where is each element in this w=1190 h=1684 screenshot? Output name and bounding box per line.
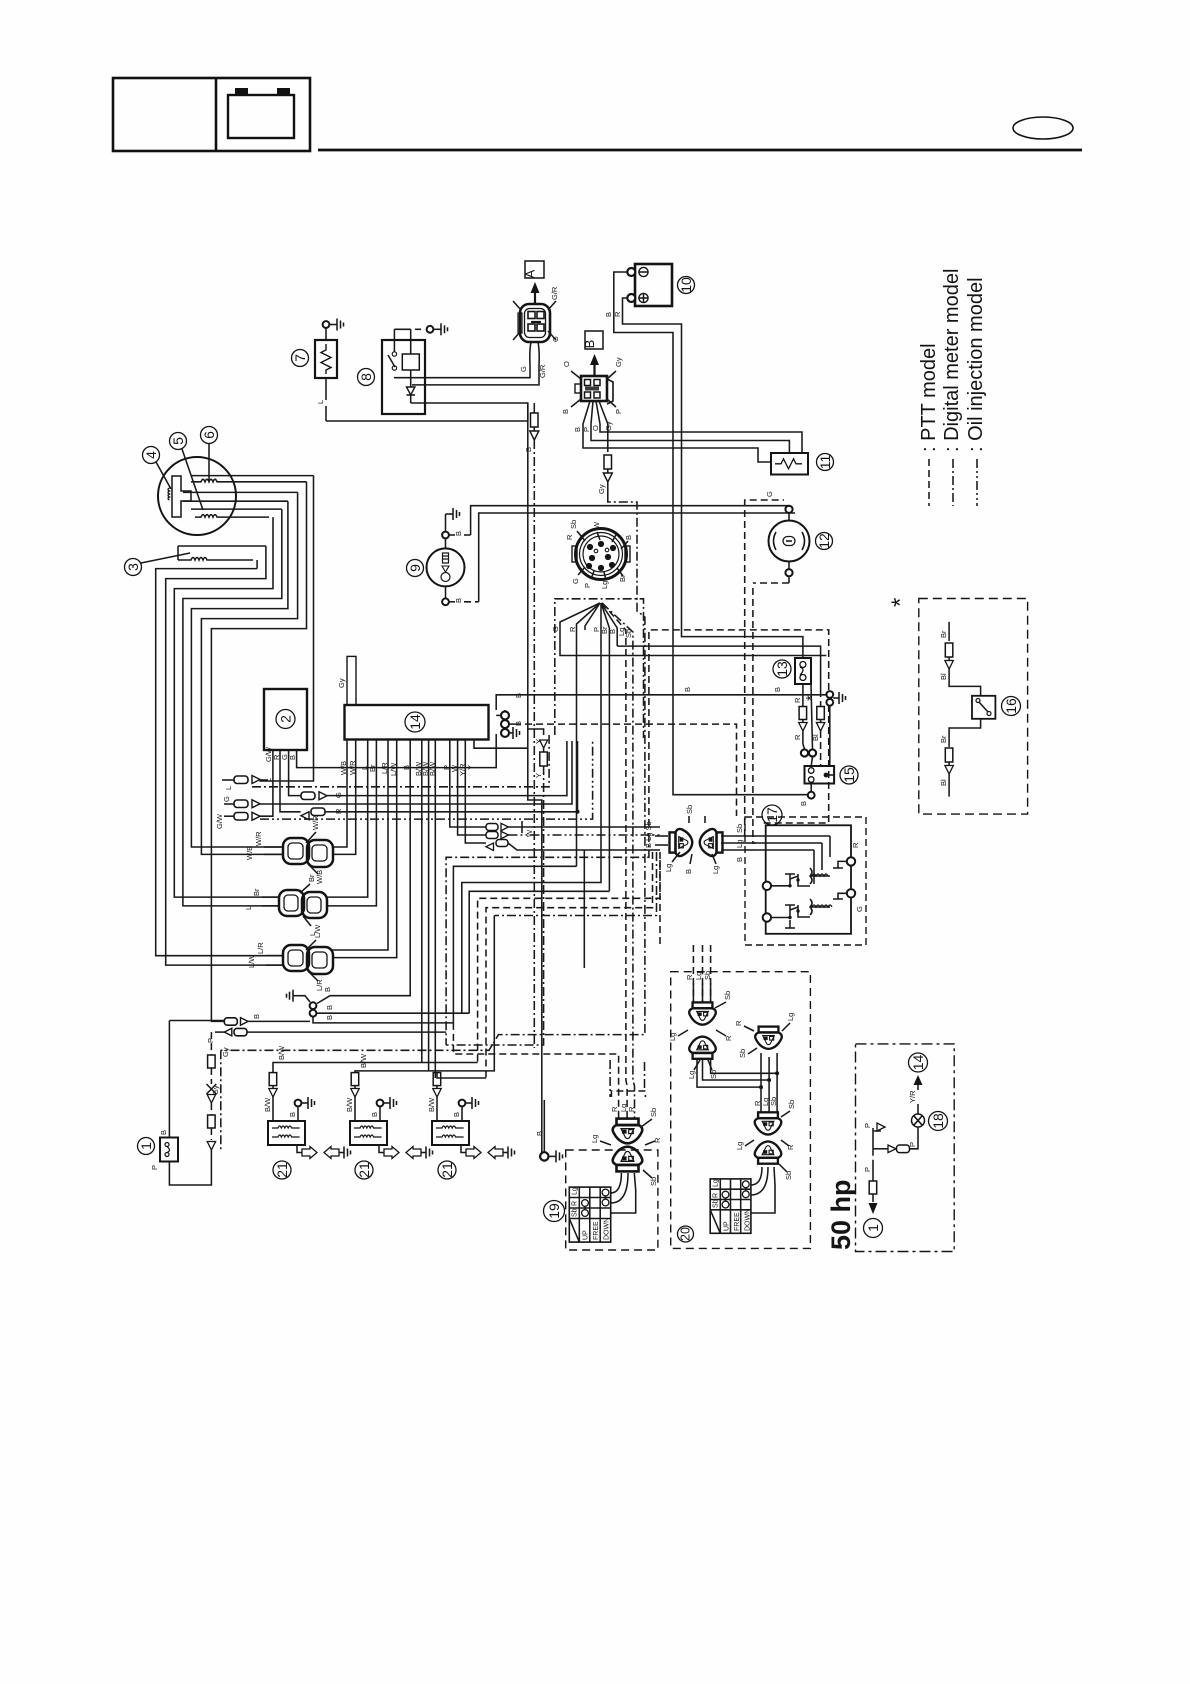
svg-text:G: G [551, 336, 560, 342]
svg-text:3: 3 [125, 563, 141, 571]
flywheel magneto circle [158, 457, 236, 535]
svg-text:R: R [627, 1106, 636, 1112]
svg-text:B Lg Sb: B Lg Sb [644, 821, 653, 848]
svg-text:L: L [244, 906, 253, 910]
label 21 a [273, 1161, 291, 1179]
svg-text:Gy: Gy [597, 484, 606, 494]
bullet connector L [222, 776, 273, 791]
battery R wire [613, 298, 682, 628]
bullet connector pair B bottom left [224, 1014, 310, 1025]
svg-text:Lg: Lg [786, 1013, 795, 1021]
svg-text:G: G [334, 792, 343, 798]
50hp wire chain to 1 [863, 1123, 918, 1214]
unit 14 wires B/W x3 [422, 740, 436, 1079]
resistor 7 [315, 319, 344, 379]
svg-text:Lg: Lg [711, 866, 720, 874]
svg-text:Lg: Lg [735, 1142, 744, 1150]
node B box [582, 331, 603, 349]
svg-text:Gy: Gy [337, 678, 346, 688]
charge coil 5 winding [183, 492, 298, 517]
svg-text:R: R [724, 1035, 733, 1041]
B fuse chain below node A area [524, 403, 539, 1048]
svg-text:B/W: B/W [277, 1045, 286, 1060]
harness fan-out below round connector [551, 603, 826, 1118]
svg-text:Sb: Sb [723, 991, 732, 1000]
svg-text:B: B [454, 531, 463, 536]
svg-text:P: P [150, 1165, 159, 1170]
svg-text:B: B [370, 1112, 379, 1117]
svg-text:B/W: B/W [359, 1053, 368, 1068]
label 17 [762, 805, 782, 825]
svg-text:B: B [683, 687, 692, 692]
svg-text:G: G [571, 578, 580, 584]
battery icon in header [228, 88, 294, 138]
svg-text:Sb: Sb [784, 1171, 793, 1180]
svg-text:Sb: Sb [685, 805, 694, 814]
svg-text:Sb: Sb [703, 971, 712, 980]
svg-text:P: P [614, 409, 623, 414]
connector B fan wires B P O Gy [573, 401, 802, 462]
svg-text:8: 8 [358, 373, 374, 381]
svg-text:G: G [855, 906, 864, 912]
svg-text:7: 7 [292, 354, 308, 362]
unit 14 wire Y [474, 740, 528, 749]
svg-text:1: 1 [138, 1142, 154, 1150]
svg-text:R: R [734, 1020, 743, 1026]
ignition coil 21 a [263, 1045, 478, 1159]
svg-text:Gy: Gy [604, 421, 613, 431]
svg-text:1: 1 [865, 1224, 881, 1232]
svg-text:G/R: G/R [538, 364, 547, 378]
svg-text:14: 14 [910, 1055, 926, 1071]
bullet connector G/W left [215, 812, 260, 829]
svg-text:Lg: Lg [694, 972, 703, 980]
harness elbow runs to lower verticals [355, 603, 660, 1078]
bullet connector pair P bottom left [206, 1028, 446, 1043]
battery B wire [604, 272, 808, 795]
plug pair 1 (W/R W/B) [245, 815, 333, 884]
svg-text:Lg: Lg [600, 581, 609, 589]
PTT motor connector pair upper [668, 971, 733, 1079]
svg-text:Br: Br [939, 630, 948, 638]
label 18 [929, 1112, 948, 1131]
rectifier regulator 8 [382, 323, 448, 414]
main harness round connector (10-pin) [565, 520, 633, 589]
junction rings right of unit 14 [496, 693, 826, 816]
legend: Oil injection model [965, 277, 987, 506]
svg-text:W/B: W/B [245, 846, 254, 860]
svg-text:L/R: L/R [256, 942, 265, 954]
node A box [523, 261, 545, 278]
label 10 [678, 277, 695, 294]
label 21 c [438, 1161, 456, 1179]
svg-text:B: B [323, 987, 332, 992]
svg-text:W/B: W/B [315, 870, 324, 884]
PTT model dashed drop lines to motor [660, 860, 711, 1002]
header ellipse mark [1013, 117, 1073, 139]
svg-text:Lg: Lg [572, 1187, 579, 1195]
svg-text:DOWN: DOWN [745, 1209, 752, 1231]
svg-text:13: 13 [774, 661, 790, 677]
svg-text:B: B [582, 340, 597, 349]
B junction rings and ground [683, 687, 846, 706]
svg-text:B/W: B/W [427, 1097, 436, 1112]
svg-text:B: B [561, 409, 570, 414]
svg-text:R: R [685, 974, 694, 980]
svg-text:FREE: FREE [593, 1221, 600, 1240]
svg-text:Sb: Sb [572, 1208, 579, 1217]
svg-text:Bl: Bl [939, 779, 948, 786]
svg-text:*: * [803, 695, 820, 701]
svg-text:B/W: B/W [263, 1097, 272, 1112]
unit 14 output labels [339, 760, 475, 776]
dashed enclosure for ignition switch 12 [745, 491, 784, 843]
svg-text:L: L [264, 778, 273, 782]
svg-text:UP: UP [583, 1230, 590, 1240]
svg-text:21: 21 [274, 1162, 290, 1178]
trim switch grid 19 [569, 1187, 610, 1242]
resistor 7 lower lead joining node [316, 378, 528, 421]
main switch 16 chain [939, 622, 995, 797]
svg-text:17: 17 [764, 807, 780, 823]
svg-text:R: R [334, 808, 343, 814]
ignition coil 21 c [427, 1073, 515, 1159]
unit 14 wire B to ground junction [317, 740, 410, 1004]
svg-text:Sb: Sb [738, 1049, 747, 1058]
magneto wire staircase to left verticals [174, 476, 313, 1022]
svg-text:: Oil injection model: : Oil injection model [965, 277, 987, 452]
svg-text:6: 6 [201, 431, 217, 439]
arrow to 14 [908, 1075, 923, 1103]
svg-text:B: B [608, 629, 617, 634]
dashed enclosure around breaker 13 [649, 630, 829, 826]
svg-text:B: B [159, 1130, 168, 1135]
svg-text:Br: Br [939, 735, 948, 743]
svg-text:B: B [288, 755, 297, 760]
engine stop switch 1 [150, 1021, 224, 1171]
svg-text:FREE: FREE [734, 1212, 741, 1231]
svg-text:Sb: Sb [787, 1100, 796, 1109]
svg-text:Gy: Gy [221, 1047, 230, 1057]
CDI unit 2 [264, 689, 307, 750]
svg-text:B: B [514, 693, 523, 698]
plug pair 2 (Br L) [244, 874, 327, 936]
svg-text:Br: Br [252, 888, 261, 896]
svg-text:G/W: G/W [215, 813, 224, 829]
label 11 [817, 454, 834, 471]
ignition switch 12 [753, 506, 810, 583]
inline connectors P W Y/R trio [486, 821, 660, 968]
svg-text:B: B [288, 1112, 297, 1117]
ignition control unit 14 [345, 705, 489, 740]
label 5 [170, 433, 204, 511]
Gy stub bar above unit 14 [337, 656, 356, 705]
connector A (4-pin) [513, 286, 560, 342]
svg-text:Bl: Bl [811, 734, 820, 741]
bullet connector R right [301, 808, 343, 820]
svg-text:B: B [573, 427, 582, 432]
bullet connector G right [301, 792, 343, 800]
svg-text:14: 14 [407, 714, 423, 730]
svg-text:Y/R: Y/R [908, 1090, 917, 1103]
wire R to breaker 13 [682, 628, 803, 658]
svg-text:B/W: B/W [345, 1097, 354, 1112]
label 9 [407, 560, 424, 577]
wires connector to switch grid 19 [611, 1173, 636, 1213]
PTT motor dashed box 20 [671, 972, 811, 1249]
pulser coil 4 (T shape) [168, 476, 191, 517]
svg-text:R: R [713, 1193, 720, 1198]
label 7 [292, 350, 309, 367]
svg-text:G: G [519, 366, 528, 372]
svg-text:W: W [525, 829, 534, 837]
svg-text:B: B [684, 869, 693, 874]
svg-text:R: R [613, 311, 622, 317]
svg-text:Gy: Gy [614, 357, 623, 367]
svg-text:9: 9 [407, 564, 423, 572]
svg-text:R: R [610, 1106, 619, 1112]
svg-text:P: P [863, 1167, 872, 1172]
wire arrow to node B [590, 354, 599, 376]
circuit breaker 13 [795, 658, 811, 684]
Gy dash-dot run from connector B to junction [221, 496, 645, 1050]
PTT motor single connector right [734, 1013, 795, 1058]
svg-text:B: B [325, 1015, 334, 1020]
main switch dashed box 16 [919, 599, 1028, 815]
svg-text:B: B [325, 1005, 334, 1010]
svg-text:21: 21 [356, 1162, 372, 1178]
svg-text:R: R [793, 734, 802, 740]
ground + junction cluster lower middle [287, 987, 470, 1023]
svg-text:: Digital meter model: : Digital meter model [941, 269, 963, 452]
svg-text:16: 16 [1003, 698, 1019, 714]
svg-text:R: R [793, 697, 802, 703]
harness runs to PTT switch connector [453, 1023, 645, 1118]
svg-text:Lg: Lg [687, 1071, 696, 1079]
PTT motor connector pair lower [735, 1100, 796, 1180]
svg-text:Lg: Lg [668, 1033, 677, 1041]
svg-text:UP: UP [724, 1221, 731, 1231]
bullet connector G left [222, 796, 260, 808]
dash-dot enclosure around harness fan [555, 599, 644, 738]
long horizontals from bullet cluster to harness [252, 735, 593, 819]
label 13 [773, 660, 791, 678]
svg-text:O: O [591, 425, 600, 431]
svg-text:B: B [604, 312, 613, 317]
svg-text:B: B [735, 857, 744, 862]
Bl dashed fuse chain [811, 690, 825, 766]
svg-text:R: R [653, 1137, 662, 1143]
trim switch connector pair 19 [590, 1108, 662, 1186]
unit 14 wires P W Y/R to inline connectors [450, 740, 486, 844]
svg-text:B: B [624, 535, 633, 540]
wires from 9 heading right [471, 506, 795, 602]
trim switch grid 20 [710, 1179, 751, 1233]
R fuse chain to starter relay [793, 684, 830, 766]
svg-text:P: P [583, 583, 592, 588]
wire G from connector A [394, 342, 531, 378]
plug pair 3 (L/R L/W) [247, 924, 333, 991]
label 16 [1002, 697, 1021, 716]
svg-text:: PTT model: : PTT model [918, 343, 940, 452]
ignition charge coil 3 [178, 546, 266, 569]
svg-text:R: R [786, 1144, 795, 1150]
svg-text:Y: Y [534, 773, 543, 778]
svg-text:B: B [524, 447, 533, 452]
B wire with ring and ground at PTT switch [535, 1100, 563, 1162]
svg-text:12: 12 [816, 533, 832, 549]
svg-text:W/R: W/R [254, 831, 263, 846]
svg-text:Br: Br [307, 874, 316, 882]
label 1 [138, 1138, 155, 1155]
label 20 [678, 1226, 694, 1242]
svg-text:B: B [799, 801, 808, 806]
svg-text:Br: Br [618, 574, 627, 582]
wire G/R from connector A [412, 342, 547, 385]
PTT switch dashed box 19 [566, 1150, 658, 1250]
coil 3 lead wires [156, 546, 282, 965]
svg-text:Bl: Bl [939, 673, 948, 680]
svg-text:Lg: Lg [735, 840, 744, 848]
wire from 8 diode to B chain [411, 403, 542, 1156]
fuse on Gy wire of connector B [597, 455, 612, 496]
trim sender twin connectors [644, 805, 723, 874]
svg-text:B: B [535, 1131, 544, 1136]
svg-text:G: G [222, 796, 231, 802]
starter relay 15 [799, 766, 834, 806]
Y inline fuse chain [446, 729, 547, 1045]
rectifier 9 [427, 508, 479, 605]
label 12 [816, 533, 833, 550]
label 19 [544, 1201, 565, 1222]
label 1 in 50hp box [864, 1219, 883, 1238]
svg-text:G/R: G/R [550, 286, 559, 300]
svg-text:B: B [452, 1112, 461, 1117]
svg-text:W/R: W/R [311, 815, 320, 830]
svg-text:10: 10 [678, 277, 694, 293]
svg-text:Sb: Sb [735, 824, 744, 833]
Gy dash-dot drop at left [211, 1047, 230, 1150]
svg-text:Sb: Sb [649, 1108, 658, 1117]
svg-text:Lg: Lg [590, 1135, 599, 1143]
legend: PTT model [918, 343, 940, 506]
trim sender output wires [721, 824, 756, 862]
svg-text:Sb: Sb [713, 1199, 720, 1208]
svg-text:L: L [316, 400, 325, 404]
CDI wires G/W R G B [259, 734, 496, 816]
svg-text:21: 21 [439, 1162, 455, 1178]
indicator light 18 [908, 1104, 925, 1147]
label 15 [840, 766, 858, 784]
connector B (4-pin) [561, 357, 623, 414]
header rule line [318, 149, 1082, 152]
svg-text:Sb: Sb [569, 520, 578, 529]
lighting coil 6 winding [191, 476, 314, 482]
wire arrow to node A [531, 282, 540, 304]
unit 14 wires L/R L/W to plug pair 3 [332, 740, 397, 958]
svg-text:*: * [887, 598, 914, 607]
label 6 [201, 427, 218, 481]
label 4 [143, 447, 172, 490]
unit 14 wires W/B W/R to plug pair 1 [332, 740, 356, 855]
svg-text:B: B [454, 598, 463, 603]
wire B to junction [617, 646, 820, 690]
svg-text:Y: Y [466, 765, 475, 770]
label 8 [358, 369, 375, 386]
legend: Digital meter model [941, 269, 963, 506]
svg-text:G: G [765, 491, 774, 497]
svg-text:DOWN: DOWN [604, 1218, 611, 1240]
svg-text:R: R [568, 626, 577, 632]
PTT relay dashed enclosure [745, 817, 866, 945]
50 hp supplement dash-dot box [856, 1044, 955, 1252]
PTT relay unit [756, 825, 864, 934]
unit 14 wires L Br to plug pair 2 [326, 740, 376, 906]
svg-text:L/W: L/W [247, 954, 256, 968]
label 3 [125, 553, 191, 576]
svg-text:B: B [773, 687, 782, 692]
svg-text:A: A [523, 269, 538, 278]
svg-text:19: 19 [546, 1203, 562, 1219]
PTT motor cross wires [697, 1053, 779, 1112]
ignition coil 21 b [345, 1053, 433, 1159]
svg-text:R: R [851, 842, 860, 848]
P inline component chain [169, 1032, 216, 1185]
label 14 in 50hp box [909, 1053, 928, 1072]
battery 10 [627, 264, 672, 306]
header frame box [113, 78, 310, 151]
label 21 b [355, 1161, 373, 1179]
PTT relay resistor 11 [771, 453, 808, 475]
svg-text:L: L [224, 786, 233, 790]
svg-text:4: 4 [143, 451, 159, 459]
svg-text:R: R [572, 1201, 579, 1206]
svg-text:15: 15 [841, 767, 857, 783]
svg-text:B: B [252, 1014, 261, 1019]
svg-text:Sb: Sb [649, 1177, 658, 1186]
wires connector to switch grid 20 [751, 1167, 775, 1213]
svg-text:P: P [206, 1038, 215, 1043]
svg-text:11: 11 [817, 455, 833, 470]
svg-text:5: 5 [170, 437, 186, 445]
svg-text:Lg: Lg [664, 864, 673, 872]
svg-text:18: 18 [930, 1113, 946, 1129]
svg-text:L/W: L/W [313, 924, 322, 938]
svg-text:R: R [565, 534, 574, 540]
svg-text:Lg: Lg [713, 1179, 720, 1187]
svg-text:2: 2 [278, 715, 294, 723]
svg-text:W: W [592, 521, 601, 529]
svg-text:Sb: Sb [624, 629, 633, 638]
svg-text:P: P [582, 427, 591, 432]
svg-text:50 hp: 50 hp [826, 1179, 856, 1250]
svg-text:Sb: Sb [769, 1097, 778, 1106]
svg-text:20: 20 [679, 1227, 693, 1241]
svg-text:P: P [863, 1123, 872, 1128]
svg-text:O: O [562, 361, 571, 367]
